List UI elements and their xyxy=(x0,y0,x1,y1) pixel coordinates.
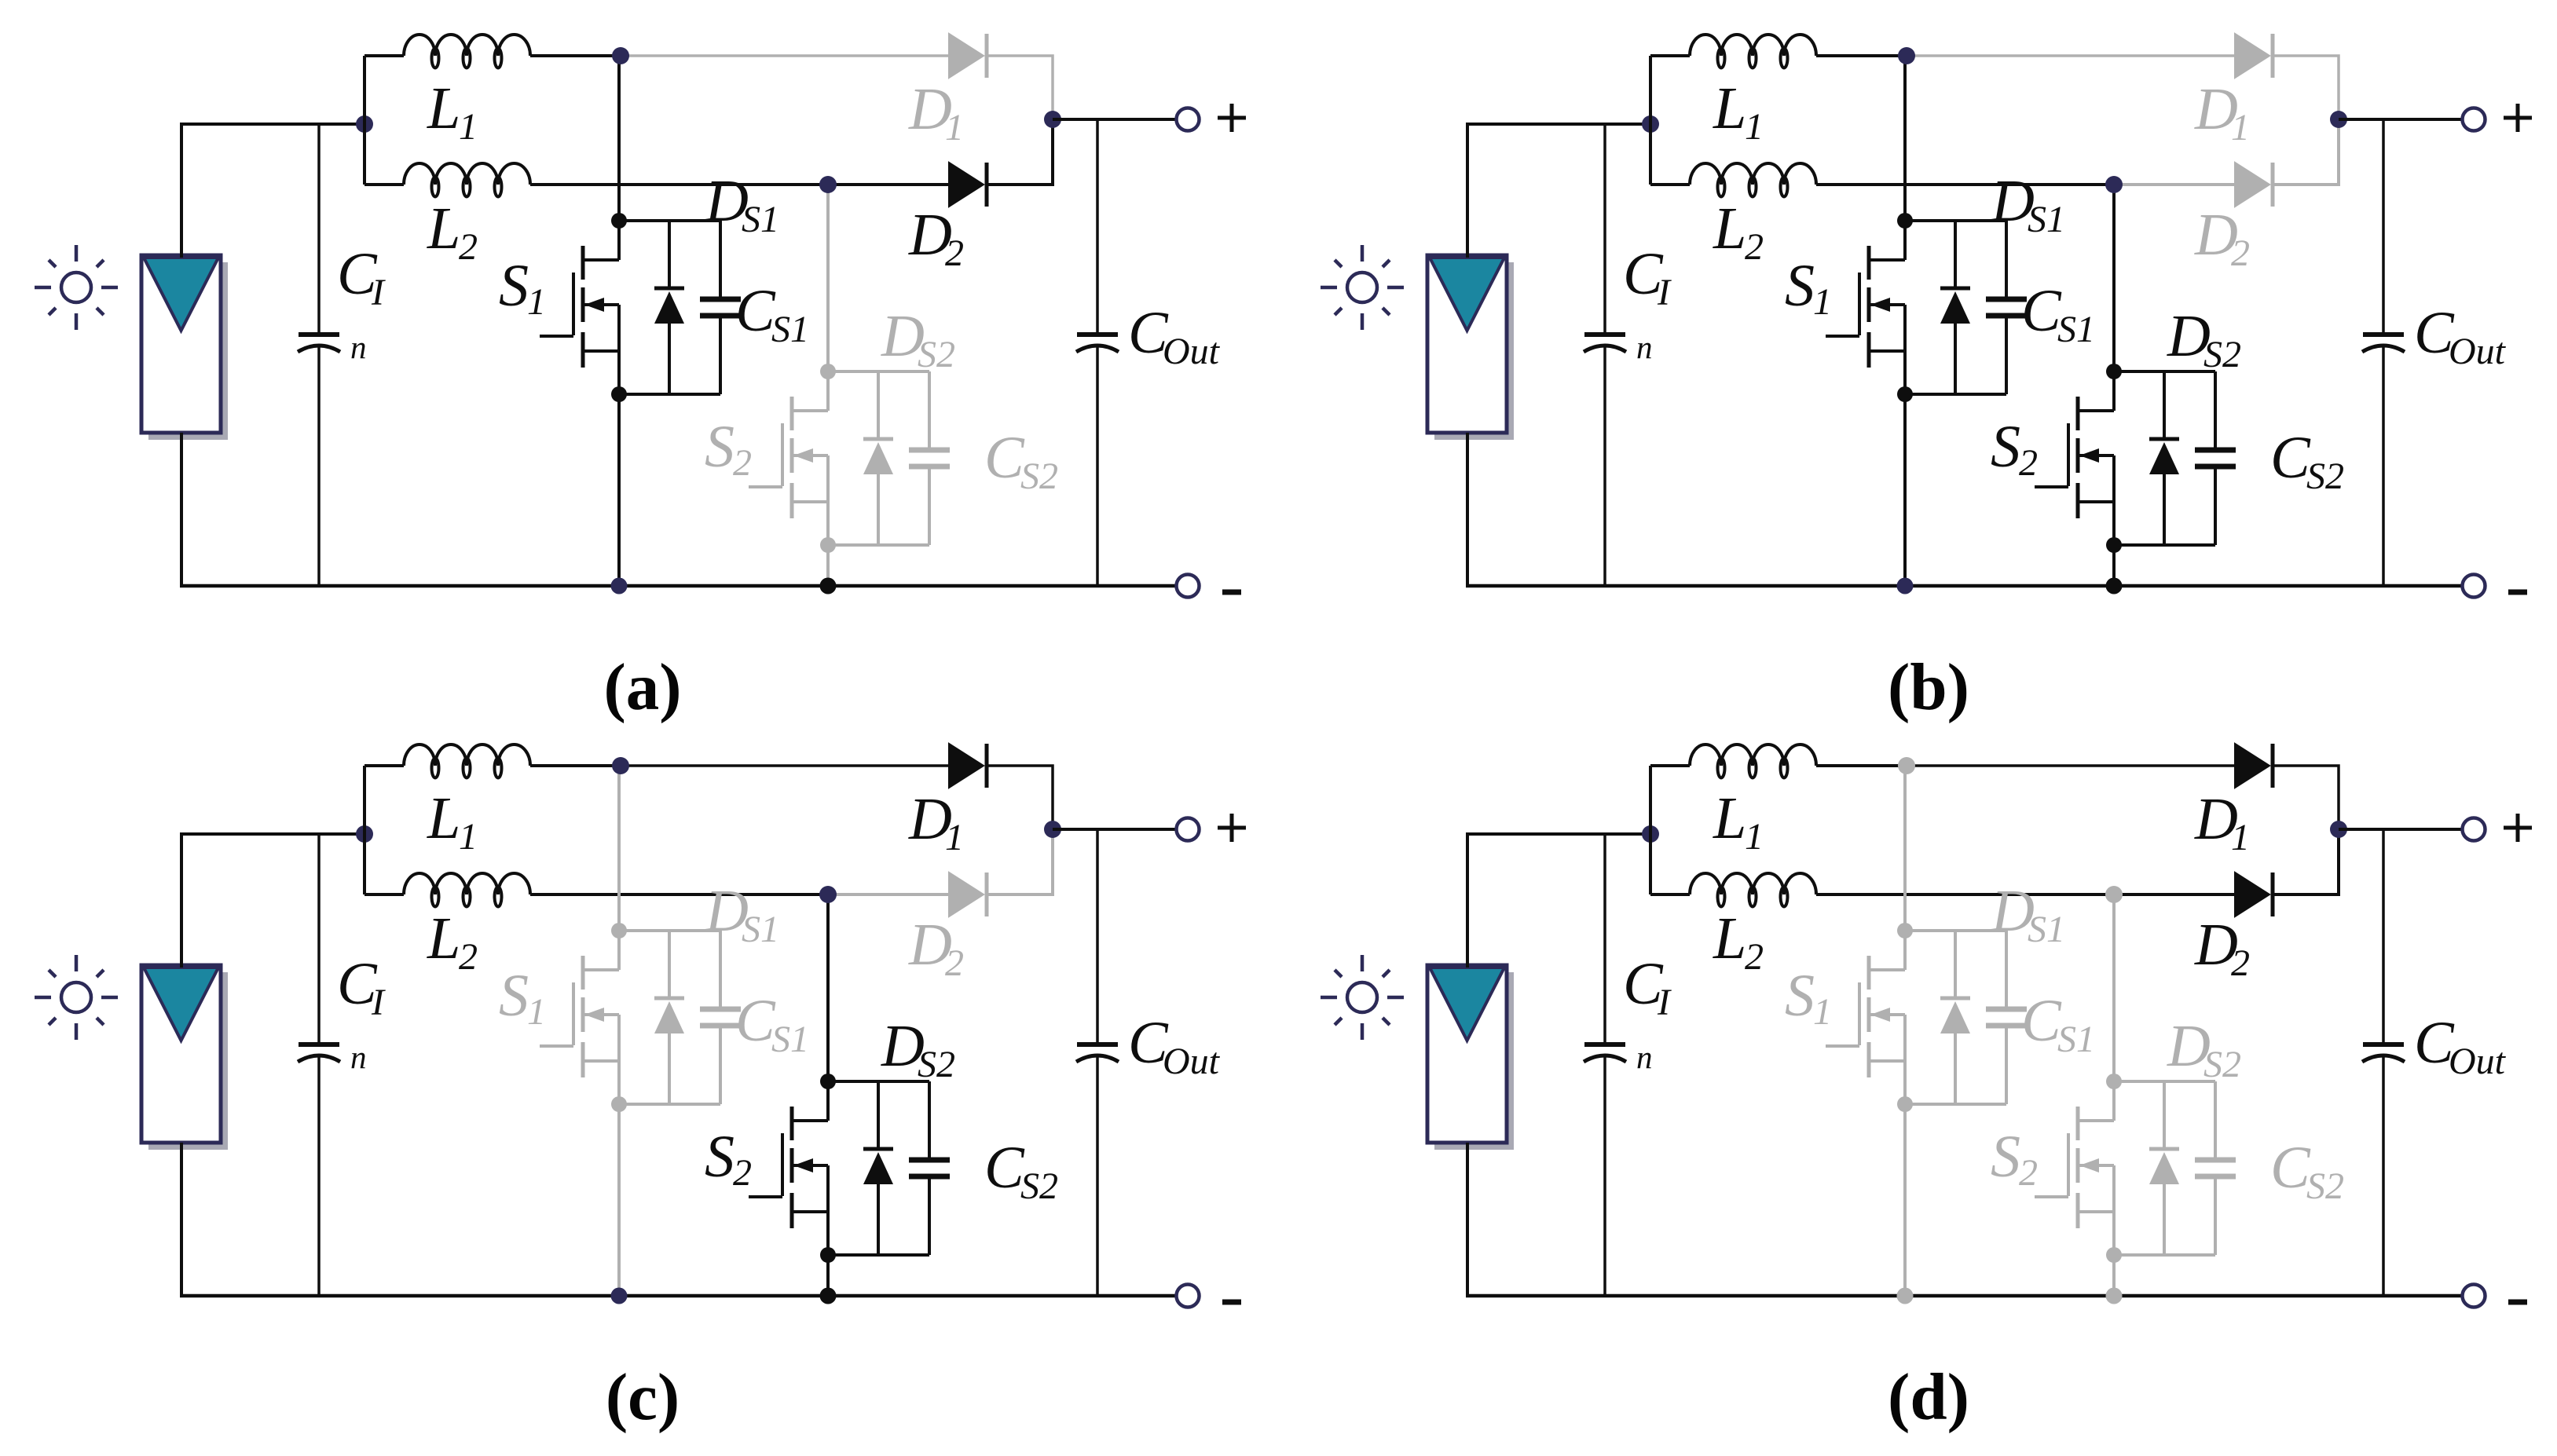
wire top rail to D1 anode (d) xyxy=(1905,764,2235,767)
wire D1 cathode to output node (d) xyxy=(2273,766,2339,829)
label COut (b) xyxy=(2414,300,2507,372)
svg-text:S2: S2 xyxy=(1020,455,1058,497)
wire S1 network top rail (d) xyxy=(1905,929,2006,932)
label plus sign (a) xyxy=(1218,104,1246,132)
wire D2 cathode to output node (d) xyxy=(2273,829,2339,894)
wire inductor branch vertical (d) xyxy=(1649,766,1652,894)
wire S1 drain riser (a) xyxy=(617,56,621,221)
sun icon (c) xyxy=(35,955,118,1040)
capacitor COut (a) xyxy=(1076,119,1119,586)
snubber capacitor CS1 (c) xyxy=(700,931,741,1104)
label plus sign (d) xyxy=(2504,814,2532,842)
node B junction (d) xyxy=(2105,886,2123,903)
wire output plus lead (c) xyxy=(1053,828,1176,831)
svg-text:S: S xyxy=(705,1124,734,1190)
inductor L2 (d) xyxy=(1690,873,1816,907)
svg-text:1: 1 xyxy=(527,991,546,1033)
wire PV bottom lead (c) xyxy=(180,1143,183,1297)
wire PV top lead (d) xyxy=(1467,834,1650,968)
svg-text:1: 1 xyxy=(1745,106,1764,148)
label CS2 (c) xyxy=(984,1135,1058,1207)
svg-text:S1: S1 xyxy=(2028,199,2065,240)
label CS1 (b) xyxy=(2021,278,2095,350)
label minus sign (d) xyxy=(2508,1300,2527,1305)
label CI (a) xyxy=(337,241,386,313)
wire PV top lead (c) xyxy=(181,834,365,968)
label CS2 (d) xyxy=(2270,1135,2344,1207)
label L1 (a) xyxy=(427,75,478,148)
svg-text:2: 2 xyxy=(459,936,478,978)
label CI (c) xyxy=(337,951,386,1023)
svg-text:I: I xyxy=(371,982,386,1023)
label DS2 (c) xyxy=(881,1013,955,1085)
label D1 (c) xyxy=(908,786,964,858)
svg-text:S: S xyxy=(705,414,734,480)
wire top rail to D1 anode (a) xyxy=(619,54,949,57)
svg-text:S2: S2 xyxy=(1020,1165,1058,1207)
node output junction (a) xyxy=(1044,111,1061,128)
wire L2 lead-in (a) xyxy=(365,183,404,186)
capacitor CI (a) xyxy=(298,124,340,586)
svg-text:S2: S2 xyxy=(2306,1165,2344,1207)
svg-text:S1: S1 xyxy=(742,199,779,240)
wire S2 network top rail (b) xyxy=(2114,370,2215,373)
svg-text:1: 1 xyxy=(945,107,964,148)
transistor S1 (b) xyxy=(1826,221,1905,394)
label CS1 (d) xyxy=(2021,988,2095,1060)
diode D2 (c) xyxy=(949,873,987,916)
label S2 (d) xyxy=(1991,1124,2038,1194)
label CI (b) xyxy=(1623,241,1672,313)
svg-text:C: C xyxy=(2270,1135,2311,1201)
inductor L2 (b) xyxy=(1690,163,1816,197)
wire S1 source to rail (c) xyxy=(617,1104,621,1296)
wire S2 network top rail (d) xyxy=(2114,1080,2215,1083)
label DS1 (d) xyxy=(1991,878,2065,950)
label S2 (c) xyxy=(705,1124,752,1194)
body diode DS2 (d) xyxy=(2149,1081,2179,1255)
svg-text:n: n xyxy=(350,329,367,365)
body diode DS2 (a) xyxy=(863,371,893,545)
terminal output minus (d) xyxy=(2463,1285,2486,1308)
svg-text:C: C xyxy=(2021,278,2062,344)
svg-text:S1: S1 xyxy=(2057,1019,2095,1060)
wire node B to D2 anode (a) xyxy=(828,183,949,186)
terminal output minus (c) xyxy=(1177,1285,1200,1308)
label D1 (a) xyxy=(908,76,964,148)
wire D1 cathode to output node (c) xyxy=(987,766,1053,829)
snubber capacitor CS1 (a) xyxy=(700,221,741,394)
PV panel (c) xyxy=(141,965,228,1150)
terminal output plus (d) xyxy=(2463,818,2486,841)
snubber capacitor CS1 (d) xyxy=(1986,931,2027,1104)
wire S1 network bottom rail (d) xyxy=(1905,1103,2006,1106)
inductor L1 (d) xyxy=(1690,744,1816,778)
wire L2 lead-in (c) xyxy=(365,893,404,896)
wire S2 source to rail (c) xyxy=(826,1255,830,1296)
svg-text:I: I xyxy=(371,272,386,313)
node L1 output junction (a) xyxy=(612,47,629,64)
label CS1 (c) xyxy=(735,988,809,1060)
svg-text:2: 2 xyxy=(459,226,478,268)
body diode DS2 (b) xyxy=(2149,371,2179,545)
wire L1 lead-in (b) xyxy=(1650,54,1690,57)
wire S2 network top rail (c) xyxy=(828,1080,929,1083)
wire output plus lead (a) xyxy=(1053,118,1176,121)
svg-text:S1: S1 xyxy=(771,309,809,350)
svg-text:2: 2 xyxy=(1745,226,1764,268)
wire L1 to node (a) xyxy=(530,54,621,57)
node S1 drain junction (c) xyxy=(611,923,627,938)
inductor L1 (a) xyxy=(404,35,530,68)
svg-text:n: n xyxy=(1636,329,1653,365)
label CI (d) xyxy=(1623,951,1672,1023)
label L1 (b) xyxy=(1713,75,1764,148)
svg-text:1: 1 xyxy=(1813,991,1832,1033)
wire D2 cathode to output node (a) xyxy=(987,119,1053,185)
label D2 (a) xyxy=(908,202,964,274)
label L2 (d) xyxy=(1713,905,1764,978)
svg-text:2: 2 xyxy=(2231,942,2250,984)
wire S1 network top rail (a) xyxy=(619,219,720,222)
svg-text:S1: S1 xyxy=(742,909,779,950)
svg-text:2: 2 xyxy=(945,232,964,274)
wire PV top lead (a) xyxy=(181,124,365,258)
wire L2 to node B (d) xyxy=(1816,893,2116,896)
transistor S2 (a) xyxy=(749,371,828,545)
wire bottom rail (a) xyxy=(180,584,1176,588)
capacitor COut (d) xyxy=(2362,829,2405,1296)
wire bottom rail (b) xyxy=(1466,584,2462,588)
wire S1 source to rail (b) xyxy=(1903,394,1907,586)
wire L2 to node B (a) xyxy=(530,183,830,186)
wire S2 network bottom rail (a) xyxy=(828,543,929,547)
terminal output minus (b) xyxy=(2463,575,2486,598)
svg-text:L: L xyxy=(427,75,460,141)
transistor S2 (c) xyxy=(749,1081,828,1255)
diode D1 (d) xyxy=(2235,744,2273,788)
svg-text:1: 1 xyxy=(2231,817,2250,858)
wire S2 source to rail (d) xyxy=(2112,1255,2116,1296)
node S2 source junction (b) xyxy=(2106,537,2122,553)
node rail below S1 (c) xyxy=(611,1288,628,1304)
wire D1 cathode to output node (b) xyxy=(2273,56,2339,119)
wire S1 network top rail (c) xyxy=(619,929,720,932)
inductor L2 (c) xyxy=(404,873,530,907)
wire output plus lead (d) xyxy=(2339,828,2462,831)
node S1 drain junction (d) xyxy=(1897,923,1913,938)
svg-text:C: C xyxy=(735,988,776,1054)
node L1 output junction (b) xyxy=(1898,47,1915,64)
snubber capacitor CS2 (a) xyxy=(909,371,950,545)
label D1 (b) xyxy=(2194,76,2250,148)
node input junction (a) xyxy=(356,115,373,133)
wire S2 drain riser (a) xyxy=(826,185,830,371)
label CS1 (a) xyxy=(735,278,809,350)
inductor L1 (c) xyxy=(404,744,530,778)
capacitor COut (b) xyxy=(2362,119,2405,586)
svg-text:(c): (c) xyxy=(606,1360,680,1434)
node S2 drain junction (d) xyxy=(2106,1074,2122,1089)
body diode DS2 (c) xyxy=(863,1081,893,1255)
wire PV bottom lead (a) xyxy=(180,433,183,587)
terminal output plus (a) xyxy=(1177,108,1200,131)
wire PV top lead (b) xyxy=(1467,124,1650,258)
wire L1 lead-in (a) xyxy=(365,54,404,57)
PV panel (d) xyxy=(1427,965,1514,1150)
svg-text:I: I xyxy=(1657,272,1672,313)
terminal output plus (c) xyxy=(1177,818,1200,841)
svg-text:S2: S2 xyxy=(2203,334,2241,375)
svg-text:2: 2 xyxy=(1745,936,1764,978)
snubber capacitor CS2 (d) xyxy=(2195,1081,2236,1255)
svg-text:(b): (b) xyxy=(1888,650,1969,724)
capacitor CI (c) xyxy=(298,834,340,1296)
label DS2 (d) xyxy=(2167,1013,2241,1085)
capacitor CI (d) xyxy=(1584,834,1626,1296)
diode D2 (a) xyxy=(949,163,987,207)
label DS2 (a) xyxy=(881,303,955,375)
transistor S2 (b) xyxy=(2035,371,2114,545)
svg-text:S1: S1 xyxy=(2057,309,2095,350)
PV panel (b) xyxy=(1427,255,1514,440)
wire S2 drain riser (c) xyxy=(826,894,830,1081)
transistor S1 (c) xyxy=(540,931,619,1104)
label S1 (b) xyxy=(1785,253,1832,323)
svg-text:(d): (d) xyxy=(1888,1360,1969,1434)
diode D1 (c) xyxy=(949,744,987,788)
svg-text:1: 1 xyxy=(1745,816,1764,858)
label plus sign (b) xyxy=(2504,104,2532,132)
wire S2 network bottom rail (b) xyxy=(2114,543,2215,547)
transistor S2 (d) xyxy=(2035,1081,2114,1255)
node S1 source junction (a) xyxy=(611,386,627,402)
label L2 (b) xyxy=(1713,196,1764,268)
node rail below S1 (a) xyxy=(611,578,628,594)
node output junction (c) xyxy=(1044,821,1061,838)
svg-text:S2: S2 xyxy=(918,334,955,375)
node output junction (d) xyxy=(2330,821,2347,838)
wire S2 network bottom rail (d) xyxy=(2114,1253,2215,1257)
diode D2 (d) xyxy=(2235,873,2273,916)
snubber capacitor CS1 (b) xyxy=(1986,221,2027,394)
label S1 (a) xyxy=(499,253,546,323)
label D2 (c) xyxy=(908,912,964,984)
svg-text:1: 1 xyxy=(1813,281,1832,323)
inductor L2 (a) xyxy=(404,163,530,197)
svg-text:n: n xyxy=(1636,1039,1653,1075)
svg-text:L: L xyxy=(427,785,460,851)
wire S1 network top rail (b) xyxy=(1905,219,2006,222)
node S1 source junction (b) xyxy=(1897,386,1913,402)
wire bottom rail (c) xyxy=(180,1294,1176,1298)
svg-text:1: 1 xyxy=(945,817,964,858)
wire D2 cathode to output node (c) xyxy=(987,829,1053,894)
svg-text:2: 2 xyxy=(2019,1152,2038,1194)
node input junction (d) xyxy=(1642,825,1659,843)
wire L1 lead-in (d) xyxy=(1650,764,1690,767)
sun icon (d) xyxy=(1321,955,1404,1040)
svg-text:2: 2 xyxy=(733,1152,752,1194)
wire PV bottom lead (b) xyxy=(1466,433,1469,587)
node input junction (c) xyxy=(356,825,373,843)
node B junction (b) xyxy=(2105,176,2123,193)
node S2 drain junction (b) xyxy=(2106,364,2122,379)
svg-text:Out: Out xyxy=(2449,331,2507,372)
wire L1 to node (d) xyxy=(1816,764,1907,767)
label DS1 (c) xyxy=(705,878,779,950)
svg-text:S: S xyxy=(1991,1124,2020,1190)
svg-text:C: C xyxy=(2021,988,2062,1054)
body diode DS1 (d) xyxy=(1940,931,1970,1104)
node rail below S2 (c) xyxy=(820,1288,837,1304)
svg-text:Out: Out xyxy=(1163,1041,1221,1082)
svg-text:2: 2 xyxy=(733,442,752,484)
label CS2 (a) xyxy=(984,425,1058,497)
node S1 drain junction (b) xyxy=(1897,213,1913,229)
body diode DS1 (a) xyxy=(654,221,684,394)
svg-text:2: 2 xyxy=(945,942,964,984)
wire S2 source to rail (a) xyxy=(826,545,830,586)
terminal output minus (a) xyxy=(1177,575,1200,598)
svg-text:L: L xyxy=(1713,785,1746,851)
node B junction (c) xyxy=(819,886,837,903)
node S2 source junction (d) xyxy=(2106,1247,2122,1263)
node S2 drain junction (c) xyxy=(820,1074,836,1089)
svg-text:(a): (a) xyxy=(603,650,681,724)
svg-text:S: S xyxy=(499,253,529,319)
node rail below S2 (a) xyxy=(820,578,837,594)
label D2 (d) xyxy=(2194,912,2250,984)
wire S1 source to rail (a) xyxy=(617,394,621,586)
svg-text:L: L xyxy=(1713,196,1746,262)
wire top rail to D1 anode (c) xyxy=(619,764,949,767)
label COut (a) xyxy=(1128,300,1221,372)
label D1 (d) xyxy=(2194,786,2250,858)
node L1 output junction (d) xyxy=(1898,757,1915,774)
node rail below S1 (b) xyxy=(1897,578,1914,594)
svg-text:S2: S2 xyxy=(2203,1044,2241,1085)
node S1 drain junction (a) xyxy=(611,213,627,229)
wire L2 lead-in (b) xyxy=(1650,183,1690,186)
wire L2 to node B (c) xyxy=(530,893,830,896)
wire S2 drain riser (b) xyxy=(2112,185,2116,371)
label CS2 (b) xyxy=(2270,425,2344,497)
label L2 (a) xyxy=(427,196,478,268)
wire S2 network bottom rail (c) xyxy=(828,1253,929,1257)
wire L1 to node (b) xyxy=(1816,54,1907,57)
wire L2 lead-in (d) xyxy=(1650,893,1690,896)
svg-text:C: C xyxy=(735,278,776,344)
node S2 drain junction (a) xyxy=(820,364,836,379)
svg-text:S: S xyxy=(1991,414,2020,480)
wire S2 network top rail (a) xyxy=(828,370,929,373)
wire D1 cathode to output node (a) xyxy=(987,56,1053,119)
svg-text:2: 2 xyxy=(2019,442,2038,484)
wire S2 drain riser (d) xyxy=(2112,894,2116,1081)
node S1 source junction (d) xyxy=(1897,1096,1913,1112)
svg-text:S2: S2 xyxy=(2306,455,2344,497)
label minus sign (b) xyxy=(2508,590,2527,595)
wire node B to D2 anode (b) xyxy=(2114,183,2235,186)
svg-text:L: L xyxy=(427,196,460,262)
svg-text:S2: S2 xyxy=(918,1044,955,1085)
label S2 (a) xyxy=(705,414,752,484)
wire inductor branch vertical (c) xyxy=(363,766,366,894)
wire inductor branch vertical (b) xyxy=(1649,56,1652,185)
svg-text:S: S xyxy=(1785,963,1815,1029)
label minus sign (c) xyxy=(1222,1300,1241,1305)
label COut (d) xyxy=(2414,1010,2507,1082)
capacitor CI (b) xyxy=(1584,124,1626,586)
node S2 source junction (a) xyxy=(820,537,836,553)
svg-text:S1: S1 xyxy=(2028,909,2065,950)
svg-text:1: 1 xyxy=(459,106,478,148)
body diode DS1 (c) xyxy=(654,931,684,1104)
label DS2 (b) xyxy=(2167,303,2241,375)
wire node B to D2 anode (c) xyxy=(828,893,949,896)
sun icon (b) xyxy=(1321,245,1404,330)
diode D1 (a) xyxy=(949,34,987,78)
wire L1 to node (c) xyxy=(530,764,621,767)
svg-text:2: 2 xyxy=(2231,232,2250,274)
label S1 (c) xyxy=(499,963,546,1033)
label S2 (b) xyxy=(1991,414,2038,484)
wire S1 source to rail (d) xyxy=(1903,1104,1907,1296)
label L2 (c) xyxy=(427,905,478,978)
label L1 (c) xyxy=(427,785,478,858)
wire S1 drain riser (c) xyxy=(617,766,621,931)
diode D2 (b) xyxy=(2235,163,2273,207)
node rail below S2 (b) xyxy=(2106,578,2123,594)
diode D1 (b) xyxy=(2235,34,2273,78)
svg-text:S: S xyxy=(499,963,529,1029)
svg-text:1: 1 xyxy=(459,816,478,858)
label minus sign (a) xyxy=(1222,590,1241,595)
svg-text:Out: Out xyxy=(1163,331,1221,372)
svg-text:S: S xyxy=(1785,253,1815,319)
wire L1 lead-in (c) xyxy=(365,764,404,767)
transistor S1 (a) xyxy=(540,221,619,394)
body diode DS1 (b) xyxy=(1940,221,1970,394)
svg-text:1: 1 xyxy=(2231,107,2250,148)
label D2 (b) xyxy=(2194,202,2250,274)
inductor L1 (b) xyxy=(1690,35,1816,68)
svg-text:n: n xyxy=(350,1039,367,1075)
svg-text:L: L xyxy=(1713,75,1746,141)
wire S1 drain riser (d) xyxy=(1903,766,1907,931)
wire PV bottom lead (d) xyxy=(1466,1143,1469,1297)
svg-text:I: I xyxy=(1657,982,1672,1023)
svg-text:S1: S1 xyxy=(771,1019,809,1060)
wire S1 network bottom rail (b) xyxy=(1905,393,2006,396)
wire S1 drain riser (b) xyxy=(1903,56,1907,221)
node S1 source junction (c) xyxy=(611,1096,627,1112)
transistor S1 (d) xyxy=(1826,931,1905,1104)
node B junction (a) xyxy=(819,176,837,193)
svg-text:1: 1 xyxy=(527,281,546,323)
snubber capacitor CS2 (b) xyxy=(2195,371,2236,545)
label L1 (d) xyxy=(1713,785,1764,858)
node S2 source junction (c) xyxy=(820,1247,836,1263)
PV panel (a) xyxy=(141,255,228,440)
node rail below S1 (d) xyxy=(1897,1288,1914,1304)
wire S1 network bottom rail (c) xyxy=(619,1103,720,1106)
wire bottom rail (d) xyxy=(1466,1294,2462,1298)
wire S1 network bottom rail (a) xyxy=(619,393,720,396)
svg-text:L: L xyxy=(427,905,460,971)
node rail below S2 (d) xyxy=(2106,1288,2123,1304)
